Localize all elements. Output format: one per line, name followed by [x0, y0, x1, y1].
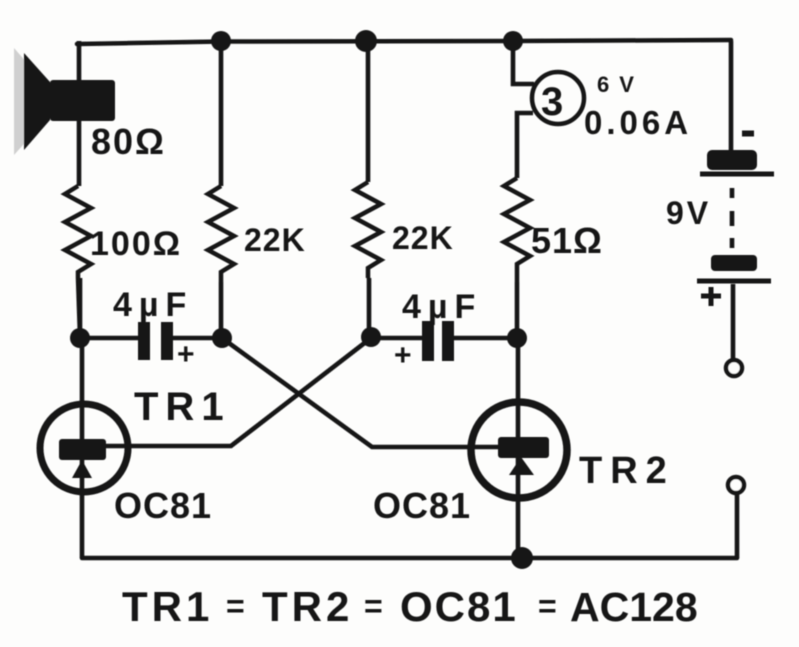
label equivalence note [122, 583, 698, 630]
svg-text:22K: 22K [392, 220, 454, 256]
label 9V [666, 195, 711, 231]
svg-text:OC81: OC81 [373, 485, 471, 526]
wire column 3 lower [367, 278, 372, 337]
label 100Ω [90, 225, 182, 263]
svg-text:+: + [394, 339, 412, 372]
resistor 51Ω [504, 178, 530, 282]
svg-text:4µF: 4µF [113, 286, 193, 324]
svg-text:=: = [364, 588, 383, 624]
svg-text:TR1: TR1 [122, 583, 213, 630]
wire C1 to node B [173, 336, 222, 341]
svg-text:4µF: 4µF [402, 288, 482, 326]
label + C2 [394, 339, 412, 372]
resistor 22K left [208, 186, 234, 282]
wire column 3 upper [366, 41, 371, 182]
label 51Ω [531, 220, 603, 261]
transistor TR1 [40, 404, 128, 492]
svg-text:=: = [226, 588, 245, 624]
svg-text:+: + [177, 338, 195, 371]
svg-text:AC128: AC128 [570, 584, 698, 630]
wire top rail [77, 40, 731, 44]
svg-text:TR2: TR2 [262, 583, 353, 630]
battery 9V [697, 134, 774, 307]
label + C1 [177, 338, 195, 371]
label 4µF C2 [402, 288, 482, 326]
svg-text:TR1: TR1 [134, 385, 231, 429]
label 0.06A [584, 104, 692, 141]
speaker 80Ω [14, 48, 115, 155]
wire 100Ω to node A [78, 278, 83, 338]
svg-text:51Ω: 51Ω [531, 220, 603, 261]
wire left column [77, 41, 82, 186]
node A speaker/C1 [70, 328, 90, 348]
wire TR2 collector-emitter column [516, 338, 521, 558]
wire terminal to bottom rail [735, 493, 740, 558]
node top rail junction 1 [211, 31, 231, 51]
node C 22K/C2 [361, 327, 381, 347]
node bottom rail junction [511, 547, 533, 569]
svg-text:=: = [538, 588, 557, 624]
node D C2/51Ω [507, 328, 527, 348]
label 80Ω [91, 121, 166, 162]
wire bottom rail [82, 556, 737, 561]
transistor TR2 [471, 402, 567, 498]
wire TR1 collector-emitter column [80, 338, 85, 558]
wire node A to capacitor C1 [80, 336, 139, 341]
resistor 100Ω [65, 186, 91, 338]
wire lamp to 51Ω [517, 113, 533, 178]
wire column 2 lower [219, 282, 224, 338]
label 6V [597, 72, 644, 97]
resistor 22K right [355, 182, 381, 278]
wire column 4 lower [515, 282, 520, 338]
label 22K left [244, 222, 306, 258]
label 4µF C1 [113, 286, 193, 324]
svg-text:0.06A: 0.06A [584, 104, 692, 141]
terminal upper [726, 360, 742, 376]
wire battery to terminal [731, 284, 736, 360]
label OC81 TR2 [373, 485, 471, 526]
capacitor C2 4µF [422, 321, 454, 361]
wire right column to battery [729, 41, 734, 150]
svg-text:3: 3 [541, 80, 563, 124]
node top rail junction 3 [503, 31, 523, 51]
label TR2 [579, 450, 675, 492]
wire cross-coupling node C to TR1 base [105, 338, 371, 446]
wire column 4 to lamp [513, 41, 534, 84]
capacitor C1 4µF [138, 322, 173, 360]
svg-text:22K: 22K [244, 222, 306, 258]
wire cross-coupling node B to TR2 base [222, 338, 500, 447]
svg-text:TR2: TR2 [579, 450, 675, 492]
node top rail junction 2 [355, 30, 377, 52]
svg-text:OC81: OC81 [400, 583, 518, 630]
label OC81 TR1 [114, 485, 212, 526]
terminal lower [728, 477, 744, 493]
svg-text:6V: 6V [597, 72, 644, 97]
label 22K right [392, 220, 454, 256]
svg-text:OC81: OC81 [114, 485, 212, 526]
svg-text:9V: 9V [666, 195, 711, 231]
wire node C to capacitor C2 [371, 336, 423, 341]
svg-text:80Ω: 80Ω [91, 121, 166, 162]
wire C2 to node D [454, 336, 517, 341]
wire column 2 upper [219, 41, 224, 186]
lamp 6V 0.06A [532, 72, 584, 124]
node B C1/22K [212, 328, 232, 348]
svg-text:100Ω: 100Ω [90, 225, 182, 263]
label TR1 [134, 385, 231, 429]
